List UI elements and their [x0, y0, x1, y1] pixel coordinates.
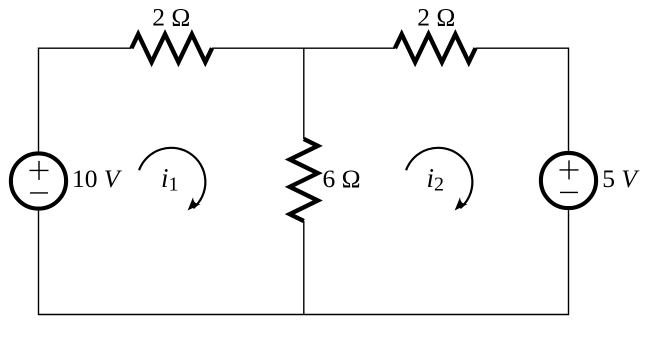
- svg-text:2 Ω: 2 Ω: [417, 3, 455, 32]
- resistor R2 2ohm top-right: [395, 34, 476, 62]
- wire top-left segment + left vertical upper (corner join): [39, 48, 132, 151]
- svg-text:2 Ω: 2 Ω: [152, 3, 190, 32]
- V1 plus sign: [30, 161, 49, 180]
- V2 minus sign: [560, 191, 578, 193]
- wire middle vertical upper: [303, 48, 305, 139]
- V2 plus sign: [560, 160, 579, 179]
- V1 minus sign: [30, 192, 48, 194]
- svg-text:10 V: 10 V: [72, 164, 123, 193]
- mesh current i1 arrowhead: [188, 197, 201, 210]
- mesh current i2 arc: [406, 148, 472, 208]
- voltage source V2 circle: [541, 153, 596, 208]
- mesh current i1 arc: [139, 148, 205, 208]
- wire left vertical lower + bottom + right vertical lower (corner joins): [39, 210, 569, 314]
- svg-text:6 Ω: 6 Ω: [323, 164, 361, 193]
- voltage source V1 circle: [11, 153, 66, 208]
- mesh current i2 arrowhead: [455, 197, 468, 210]
- resistor R1 2ohm top-left: [132, 34, 213, 62]
- svg-text:5 V: 5 V: [602, 164, 640, 193]
- wire middle vertical lower: [303, 221, 305, 315]
- wire top-right segment + right vertical upper (corner join): [476, 48, 569, 151]
- resistor R3 6ohm middle: [290, 139, 318, 221]
- wire top-middle segment: [212, 47, 395, 49]
